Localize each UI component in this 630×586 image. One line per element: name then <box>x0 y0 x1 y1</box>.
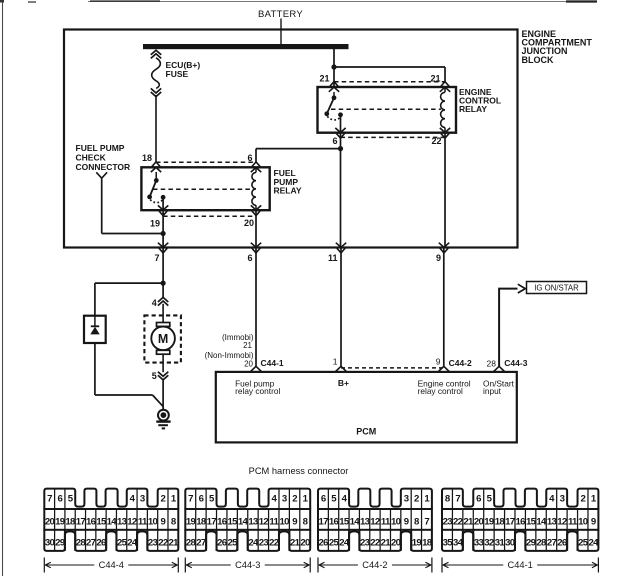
svg-text:25: 25 <box>329 538 340 549</box>
svg-text:CHECK: CHECK <box>76 153 107 163</box>
svg-text:11: 11 <box>568 516 578 527</box>
svg-text:7: 7 <box>47 494 52 505</box>
svg-text:20: 20 <box>391 538 401 549</box>
dashed line ECR bottom pins <box>341 136 446 138</box>
svg-text:C44-3: C44-3 <box>235 560 260 570</box>
svg-text:18: 18 <box>142 153 152 163</box>
fuse ECU(B+) FUSE <box>151 50 161 55</box>
svg-text:10: 10 <box>280 516 290 527</box>
ground symbol <box>158 410 169 421</box>
svg-text:2: 2 <box>580 494 585 505</box>
svg-text:11: 11 <box>328 253 338 263</box>
svg-text:18: 18 <box>495 516 506 527</box>
svg-text:29: 29 <box>526 538 536 549</box>
svg-text:2: 2 <box>414 494 419 505</box>
FPR switch output contact <box>161 195 166 200</box>
svg-text:35: 35 <box>443 538 454 549</box>
pin 20 FPR <box>251 205 261 210</box>
fuel pump motor dashed box <box>144 315 181 362</box>
svg-text:27: 27 <box>547 538 557 549</box>
svg-text:28: 28 <box>186 538 197 549</box>
pin 6 junction block <box>251 243 261 248</box>
dashed line ECR top pins <box>334 81 445 83</box>
svg-text:22: 22 <box>453 516 463 527</box>
svg-text:13: 13 <box>117 516 127 527</box>
svg-text:14: 14 <box>536 516 547 527</box>
pin 28 PCM C44-3 <box>494 366 505 371</box>
svg-text:16: 16 <box>516 516 526 527</box>
svg-text:33: 33 <box>474 538 484 549</box>
svg-text:17: 17 <box>505 516 515 527</box>
svg-text:20: 20 <box>45 516 55 527</box>
svg-text:5: 5 <box>152 371 157 381</box>
pin 1 PCM <box>336 366 347 371</box>
svg-text:12: 12 <box>370 516 380 527</box>
wire pin 6 to PCM pin 20 <box>255 248 257 367</box>
svg-text:B+: B+ <box>338 378 349 388</box>
pin 6 ECR bottom left <box>335 128 345 133</box>
svg-text:6: 6 <box>332 136 337 146</box>
svg-text:20: 20 <box>474 516 484 527</box>
svg-text:FUEL PUMP: FUEL PUMP <box>76 143 125 153</box>
svg-text:12: 12 <box>557 516 567 527</box>
svg-text:13: 13 <box>547 516 557 527</box>
node dot check connector junction <box>161 231 166 236</box>
svg-text:21: 21 <box>430 74 440 84</box>
dimension line C44-4 <box>44 558 178 573</box>
IG ON/STAR box <box>527 282 587 294</box>
svg-text:11: 11 <box>269 516 279 527</box>
svg-text:15: 15 <box>96 516 107 527</box>
svg-text:13: 13 <box>248 516 258 527</box>
engine compartment junction block box <box>64 30 518 248</box>
svg-text:26: 26 <box>557 538 567 549</box>
fuel pump relay box <box>141 167 269 210</box>
svg-text:20: 20 <box>244 359 253 368</box>
pin 9 PCM C44-2 <box>438 366 449 371</box>
FPR switch contact <box>154 178 159 183</box>
svg-text:4: 4 <box>152 298 157 308</box>
pin 11 junction block <box>336 243 346 248</box>
svg-text:14: 14 <box>238 516 249 527</box>
wire pin 7 down to fuel pump <box>162 248 164 298</box>
svg-text:25: 25 <box>117 538 128 549</box>
svg-text:24: 24 <box>589 538 600 549</box>
svg-text:32: 32 <box>484 538 494 549</box>
wire diode to ground wire <box>94 343 96 395</box>
dashed line FPR top pins <box>156 161 256 163</box>
top scan artifact line <box>88 1 595 3</box>
wire FPR pin 19 down <box>162 210 164 247</box>
wire pin 11 to PCM pin 1 <box>340 248 342 367</box>
svg-text:21: 21 <box>319 74 329 84</box>
svg-text:18: 18 <box>422 538 433 549</box>
svg-text:6: 6 <box>57 494 62 505</box>
svg-text:3: 3 <box>560 494 565 505</box>
pin 9 junction block <box>439 243 449 248</box>
pin 7 junction block <box>158 243 168 248</box>
svg-text:19: 19 <box>412 538 422 549</box>
svg-text:21: 21 <box>290 538 301 549</box>
svg-text:C44-3: C44-3 <box>504 358 527 368</box>
wire ECR pin 22 down to junction block edge <box>444 133 446 248</box>
battery bus bar <box>143 44 349 49</box>
svg-text:22: 22 <box>370 538 380 549</box>
connector C44-4 body <box>44 489 179 551</box>
svg-text:9: 9 <box>591 516 596 527</box>
svg-text:C44-1: C44-1 <box>508 560 533 570</box>
svg-text:28: 28 <box>487 359 497 369</box>
svg-text:14: 14 <box>350 516 361 527</box>
svg-text:CONNECTOR: CONNECTOR <box>76 162 131 172</box>
svg-text:30: 30 <box>45 538 55 549</box>
svg-text:RELAY: RELAY <box>274 186 302 196</box>
dimension line C44-2 <box>318 558 432 573</box>
svg-text:10: 10 <box>578 516 588 527</box>
svg-text:10: 10 <box>391 516 401 527</box>
pin 22 ECR bottom right <box>440 128 450 133</box>
FPR coil <box>252 173 256 206</box>
svg-text:18: 18 <box>196 516 207 527</box>
ECR switch blade <box>327 98 334 114</box>
wire pin 9 to PCM pin 9 <box>443 248 445 367</box>
svg-text:31: 31 <box>495 538 506 549</box>
connector C44-3 body <box>185 489 310 551</box>
pin 19 FPR <box>158 205 168 210</box>
pin 18 FPR <box>152 162 160 167</box>
svg-text:10: 10 <box>148 516 158 527</box>
svg-text:16: 16 <box>217 516 227 527</box>
svg-text:17: 17 <box>76 516 86 527</box>
svg-text:7: 7 <box>424 516 429 527</box>
svg-text:28: 28 <box>76 538 87 549</box>
wire connector 4 to motor <box>162 304 164 323</box>
ECR coil <box>441 92 445 127</box>
wire connector 5 to ground <box>162 379 164 410</box>
svg-text:3: 3 <box>140 494 145 505</box>
svg-text:9: 9 <box>436 253 441 263</box>
svg-text:9: 9 <box>292 516 297 527</box>
wire FPR pin 20 down <box>255 210 257 247</box>
svg-text:26: 26 <box>96 538 106 549</box>
svg-text:16: 16 <box>329 516 339 527</box>
svg-text:C44-1: C44-1 <box>261 358 284 368</box>
connector 4 inline <box>158 297 168 302</box>
svg-text:relay control: relay control <box>418 386 463 396</box>
node junction dot above ECR pin 21 <box>331 64 336 69</box>
svg-text:23: 23 <box>148 538 158 549</box>
svg-text:FUSE: FUSE <box>166 69 189 79</box>
svg-text:15: 15 <box>339 516 350 527</box>
svg-text:3: 3 <box>282 494 287 505</box>
dimension line C44-1 <box>442 558 598 573</box>
svg-text:3: 3 <box>404 494 409 505</box>
svg-text:BATTERY: BATTERY <box>258 9 303 20</box>
svg-text:M: M <box>158 332 168 346</box>
connector C44-2 body <box>318 489 433 551</box>
wire motor to connector 5 <box>162 354 164 372</box>
arrow into IG box <box>518 284 526 293</box>
svg-text:BLOCK: BLOCK <box>522 55 554 65</box>
node dot ECR pin6 branch <box>338 146 343 151</box>
connector 5 inline <box>158 372 168 377</box>
svg-text:23: 23 <box>259 538 269 549</box>
wire battery to bus bar <box>280 19 282 45</box>
svg-text:6: 6 <box>199 494 204 505</box>
ECR switch output contact <box>338 112 343 117</box>
svg-text:7: 7 <box>188 494 193 505</box>
svg-text:27: 27 <box>86 538 96 549</box>
motor brush bottom <box>157 350 170 354</box>
svg-text:24: 24 <box>248 538 259 549</box>
svg-text:11: 11 <box>138 516 148 527</box>
svg-text:15: 15 <box>526 516 537 527</box>
svg-text:7: 7 <box>154 253 159 263</box>
svg-text:21: 21 <box>243 341 252 350</box>
wire branch to diode <box>95 282 163 284</box>
svg-text:11: 11 <box>381 516 391 527</box>
svg-text:18: 18 <box>65 516 76 527</box>
svg-text:16: 16 <box>86 516 96 527</box>
diode box <box>84 316 106 343</box>
svg-text:20: 20 <box>300 538 310 549</box>
svg-text:6: 6 <box>247 153 252 163</box>
dashed line FPR bottom pins <box>163 215 256 217</box>
dimension line C44-3 <box>185 558 310 573</box>
svg-text:6: 6 <box>476 494 481 505</box>
svg-text:22: 22 <box>158 538 168 549</box>
dashed line ECR middle <box>331 108 441 110</box>
engine control relay box <box>318 87 457 133</box>
motor M circle <box>151 327 175 351</box>
svg-text:C44-2: C44-2 <box>362 560 387 570</box>
svg-text:21: 21 <box>381 538 392 549</box>
svg-text:25: 25 <box>578 538 589 549</box>
ECR switch dotted arc <box>327 116 340 120</box>
dashed line FPR middle <box>153 188 252 190</box>
svg-text:C44-4: C44-4 <box>99 560 124 570</box>
svg-text:29: 29 <box>55 538 65 549</box>
svg-text:9: 9 <box>161 516 166 527</box>
diode D <box>91 325 99 327</box>
svg-text:13: 13 <box>360 516 370 527</box>
svg-text:21: 21 <box>463 516 474 527</box>
svg-text:19: 19 <box>484 516 494 527</box>
svg-text:7: 7 <box>455 494 460 505</box>
connector C44-1 body <box>442 489 599 551</box>
wire branch to fuel pump relay pin 6 <box>256 148 341 150</box>
svg-text:6: 6 <box>247 253 252 263</box>
svg-text:26: 26 <box>217 538 227 549</box>
svg-text:1: 1 <box>333 356 338 366</box>
fuel pump check connector fork symbol <box>96 172 107 178</box>
svg-text:22: 22 <box>269 538 279 549</box>
svg-text:21: 21 <box>169 538 180 549</box>
wire ECR pin 6 down to junction block edge <box>340 133 342 248</box>
wire check connector to pin 19 node <box>101 178 103 233</box>
pin 21 ECR left <box>330 82 338 87</box>
PCM box <box>216 372 517 443</box>
svg-text:12: 12 <box>259 516 269 527</box>
svg-text:input: input <box>483 386 502 396</box>
svg-text:2: 2 <box>161 494 166 505</box>
pin 21 ECR right <box>441 82 449 87</box>
svg-text:30: 30 <box>505 538 515 549</box>
svg-text:12: 12 <box>127 516 137 527</box>
svg-text:28: 28 <box>536 538 547 549</box>
svg-text:PCM: PCM <box>356 427 376 437</box>
svg-text:17: 17 <box>207 516 217 527</box>
svg-text:9: 9 <box>404 516 409 527</box>
svg-text:26: 26 <box>319 538 329 549</box>
svg-text:23: 23 <box>443 516 453 527</box>
svg-text:RELAY: RELAY <box>459 104 487 114</box>
svg-text:20: 20 <box>244 218 254 228</box>
svg-text:22: 22 <box>431 136 441 146</box>
pin 20 PCM C44-1 <box>251 366 262 371</box>
svg-text:6: 6 <box>321 494 326 505</box>
FPR switch blade <box>150 180 157 197</box>
dashed line PCM pins 1-9 <box>341 367 444 369</box>
node dot diode branch <box>161 281 166 286</box>
svg-text:C44-2: C44-2 <box>449 358 472 368</box>
svg-text:PCM harness connector: PCM harness connector <box>249 466 349 476</box>
svg-text:relay control: relay control <box>235 386 280 396</box>
svg-text:19: 19 <box>186 516 196 527</box>
wire IG ON/STAR to PCM pin 28 <box>498 289 500 367</box>
wire fuse to fuel pump relay pin 18 <box>155 95 157 162</box>
pin 6 FPR <box>252 162 260 167</box>
svg-text:15: 15 <box>227 516 238 527</box>
page left border line <box>2 0 4 576</box>
svg-text:IG ON/STAR: IG ON/STAR <box>534 284 579 293</box>
motor brush top <box>157 323 170 327</box>
svg-text:19: 19 <box>150 219 160 229</box>
wire bus bar to engine control relay pin 21 <box>333 49 335 87</box>
svg-text:2: 2 <box>292 494 297 505</box>
FPR switch dotted arc <box>150 200 163 203</box>
svg-text:23: 23 <box>360 538 370 549</box>
svg-text:17: 17 <box>319 516 329 527</box>
wire junction to ECR right pin 21 <box>334 66 445 68</box>
svg-text:9: 9 <box>436 357 441 367</box>
svg-text:14: 14 <box>107 516 118 527</box>
ECR switch contact <box>332 95 337 100</box>
svg-text:27: 27 <box>196 538 206 549</box>
svg-text:19: 19 <box>55 516 65 527</box>
